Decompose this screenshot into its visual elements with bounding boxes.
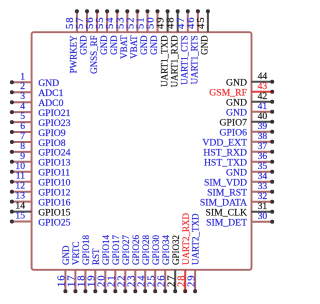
pin 26 GPIO34 (bottom)	[157, 234, 171, 293]
pin 1 GND (left)	[10, 71, 59, 89]
svg-text:45: 45	[196, 16, 207, 29]
svg-text:GND: GND	[109, 35, 119, 55]
pin 9 GPIO13 (left)	[10, 151, 71, 169]
pin 47 UART1_CTS (top)	[176, 9, 190, 85]
pin 6 GPIO9 (left)	[10, 121, 66, 139]
pin 48 UART1_RXD (top)	[166, 9, 180, 87]
svg-text:GNSS_RF: GNSS_RF	[89, 35, 99, 74]
pin 58 PWRKEY (top)	[65, 9, 79, 73]
pin 38 VDD_EXT (right)	[202, 131, 274, 148]
pin 4 GPIO21 (left)	[10, 101, 71, 119]
svg-text:RST: RST	[91, 248, 101, 265]
svg-text:VRTC: VRTC	[71, 242, 81, 265]
svg-text:GPIO25: GPIO25	[38, 217, 70, 228]
pin 32 SIM_DATA (right)	[200, 191, 274, 208]
pin 51 GND (top)	[136, 9, 150, 55]
pin 28 UART2_RXD (bottom)	[177, 213, 191, 294]
svg-text:GND: GND	[79, 35, 89, 55]
svg-text:GPIO17: GPIO17	[111, 234, 121, 265]
svg-text:GND: GND	[200, 35, 210, 55]
pin 25 GPIO30 (bottom)	[147, 234, 161, 293]
pin 22 GPIO27 (bottom)	[117, 234, 131, 293]
pin 30 SIM_DET (right)	[206, 211, 274, 228]
svg-text:GPIO30: GPIO30	[151, 234, 161, 265]
pin 50 GND (top)	[146, 9, 160, 55]
pin 16 GND (bottom)	[57, 245, 71, 293]
pin 37 HST_RXD (right)	[203, 141, 274, 158]
pin 19 RST (bottom)	[87, 248, 101, 293]
svg-text:UART1_TXD: UART1_TXD	[159, 35, 169, 87]
pin 23 GPIO26 (bottom)	[127, 234, 141, 293]
pin 7 GPIO8 (left)	[10, 131, 66, 149]
svg-text:SIM_DET: SIM_DET	[206, 218, 247, 229]
pin 43 GSM_RF (right)	[209, 81, 274, 98]
svg-text:29: 29	[186, 274, 197, 287]
pin 46 UART1_RTS (top)	[186, 9, 200, 84]
svg-text:GND: GND	[61, 245, 71, 265]
pin 55 GND (top)	[95, 9, 109, 55]
pin 24 GPIO28 (bottom)	[137, 234, 151, 293]
pin 13 GPIO16 (left)	[10, 191, 71, 209]
svg-text:UART1_CTS: UART1_CTS	[180, 35, 190, 84]
pin 54 GND (top)	[105, 9, 119, 55]
pin 41 GND (right)	[226, 101, 274, 118]
svg-text:15: 15	[15, 211, 25, 222]
svg-text:30: 30	[258, 211, 268, 222]
pin 14 GPIO15 (left)	[10, 201, 71, 219]
pin 29 UART2_TXD (bottom)	[186, 213, 200, 293]
pin 21 GPIO17 (bottom)	[107, 234, 121, 293]
pin 8 GPIO24 (left)	[10, 141, 71, 159]
svg-text:VBAT: VBAT	[129, 35, 139, 59]
pin 57 GND (top)	[75, 9, 89, 55]
svg-text:UART2_RXD: UART2_RXD	[181, 213, 191, 265]
svg-text:GPIO32: GPIO32	[171, 235, 181, 265]
svg-text:VBAT: VBAT	[119, 35, 129, 59]
pin 27 GPIO32 (bottom)	[167, 235, 181, 293]
pin 17 VRTC (bottom)	[67, 242, 81, 294]
svg-text:GND: GND	[99, 35, 109, 55]
svg-text:PWRKEY: PWRKEY	[69, 35, 79, 74]
svg-text:GPIO28: GPIO28	[141, 234, 151, 265]
pin 2 ADC1 (left)	[10, 81, 64, 99]
pin 40 GPIO7 (right)	[220, 111, 275, 128]
pin 49 UART1_TXD (top)	[156, 9, 170, 87]
pin 45 GND (top)	[196, 9, 210, 55]
pin 35 GND (right)	[226, 161, 274, 178]
svg-text:UART1_RTS: UART1_RTS	[190, 35, 200, 84]
pin 53 VBAT (top)	[115, 9, 129, 59]
pin 33 SIM_RST (right)	[207, 181, 274, 198]
pin 18 GPIO18 (bottom)	[77, 234, 91, 293]
svg-text:GPIO14: GPIO14	[101, 234, 111, 265]
pin 36 HST_TXD (right)	[204, 151, 274, 168]
pin 5 GPIO23 (left)	[10, 111, 71, 129]
svg-text:GND: GND	[139, 35, 149, 55]
IC body outline	[32, 32, 252, 270]
pin 15 GPIO25 (left)	[10, 211, 71, 229]
svg-text:GPIO18: GPIO18	[81, 234, 91, 265]
pin 56 GNSS_RF (top)	[85, 9, 99, 74]
svg-text:GPIO27: GPIO27	[121, 234, 131, 265]
svg-text:UART2_TXD: UART2_TXD	[191, 213, 201, 265]
pin 52 VBAT (top)	[125, 9, 139, 59]
pin 12 GPIO12 (left)	[10, 181, 71, 199]
pin 11 GPIO10 (left)	[10, 171, 71, 189]
pin 39 GPIO6 (right)	[220, 121, 275, 138]
svg-text:GPIO34: GPIO34	[161, 234, 171, 265]
svg-text:GND: GND	[149, 35, 159, 55]
pin 44 GND (right)	[226, 71, 274, 88]
pin 31 SIM_CLK (right)	[206, 201, 275, 218]
pin 10 GPIO11 (left)	[10, 161, 70, 179]
pin 3 ADC0 (left)	[10, 91, 64, 109]
pin 20 GPIO14 (bottom)	[97, 234, 111, 293]
svg-text:GPIO26: GPIO26	[131, 234, 141, 265]
pin 34 SIM_VDD (right)	[204, 171, 274, 188]
pin 42 GND (right)	[226, 91, 274, 108]
svg-text:UART1_RXD: UART1_RXD	[169, 35, 179, 87]
